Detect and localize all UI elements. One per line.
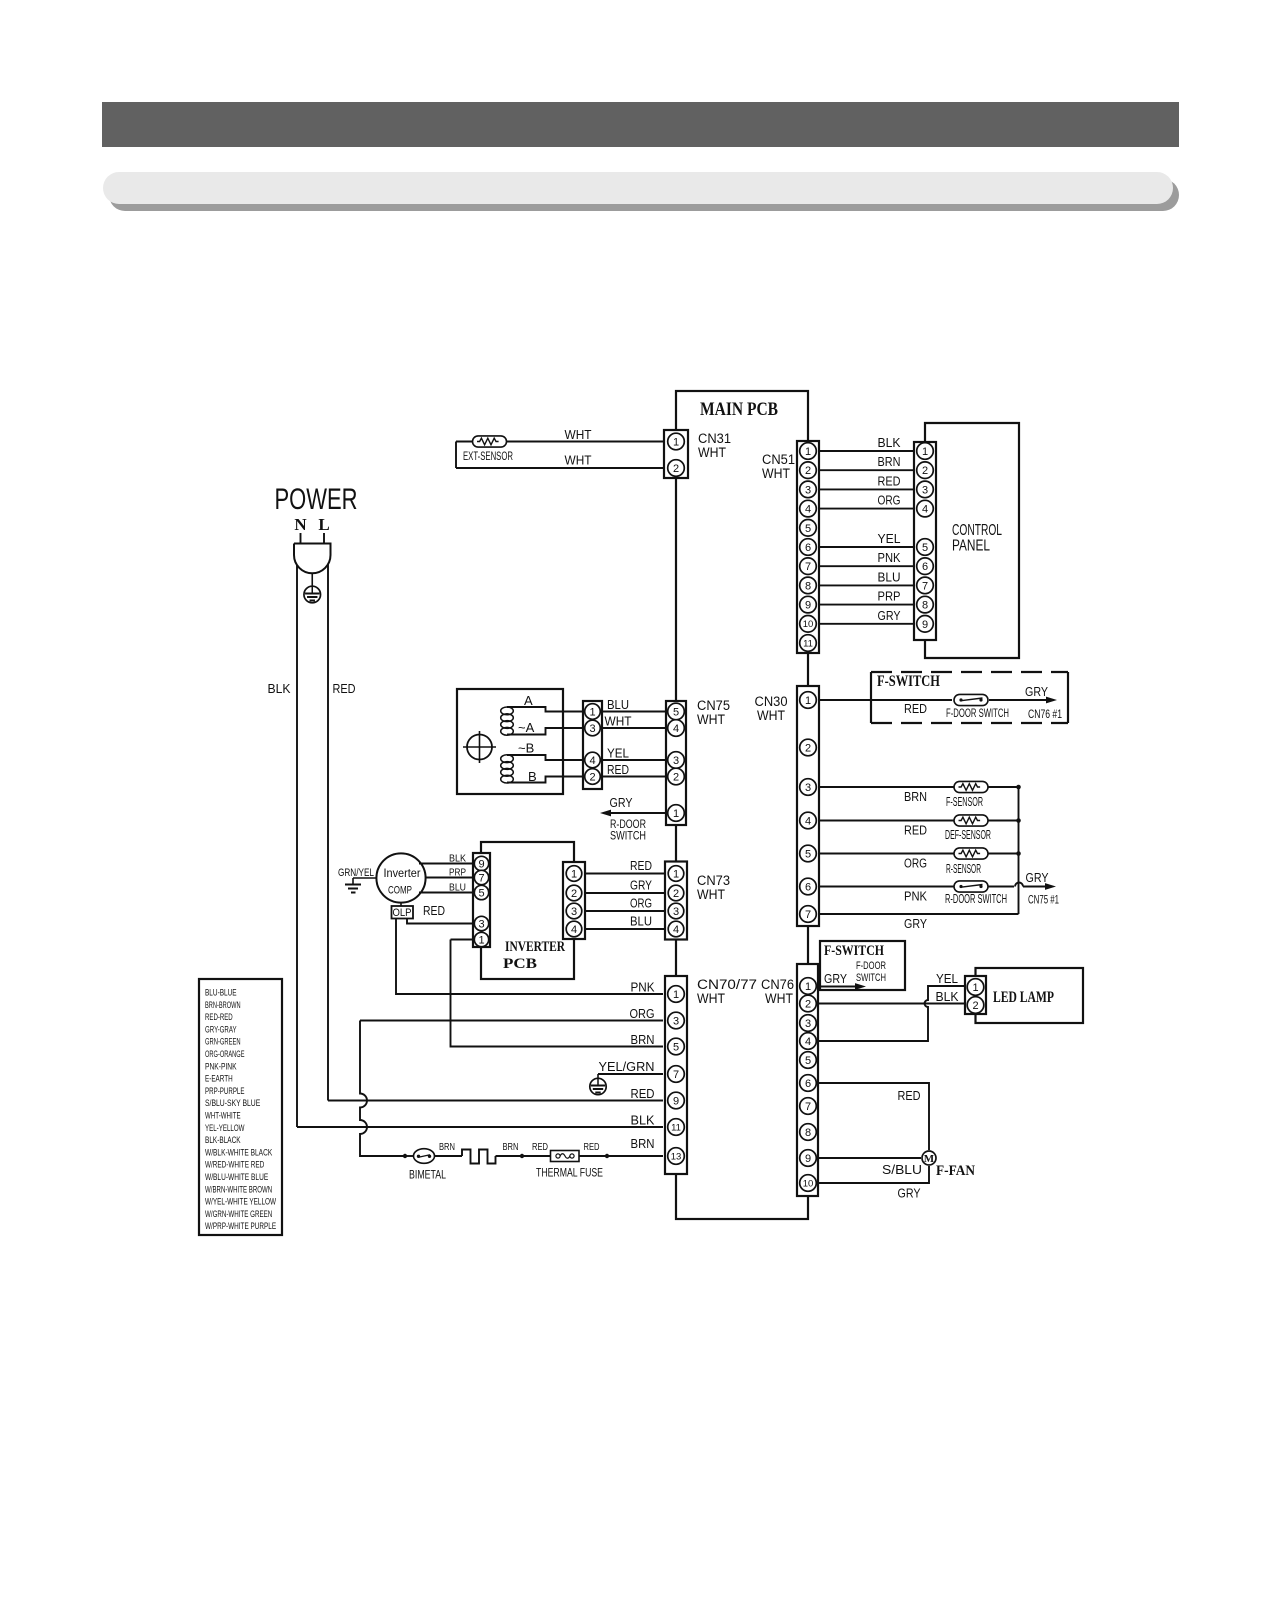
svg-text:GRY: GRY (1025, 684, 1048, 699)
svg-text:BLU: BLU (607, 697, 629, 712)
svg-text:POWER: POWER (275, 483, 358, 516)
svg-text:ORG-ORANGE: ORG-ORANGE (205, 1049, 245, 1060)
wire BRN inverter pin1 to CN70/77 pin5 (451, 940, 664, 1048)
svg-text:RED: RED (904, 823, 927, 838)
wire RED CN76 pin6 to F-FAN motor (818, 1083, 929, 1150)
svg-text:L: L (318, 515, 329, 534)
svg-text:~A: ~A (518, 720, 535, 735)
sensor common bus wire (1016, 785, 1021, 914)
svg-text:1: 1 (673, 989, 679, 1001)
switch box F-SWITCH with F-DOOR SWITCH (820, 941, 905, 990)
svg-text:RED: RED (423, 903, 445, 918)
svg-text:9: 9 (805, 600, 811, 612)
svg-text:8: 8 (922, 600, 928, 612)
svg-text:5: 5 (922, 542, 928, 554)
svg-text:4: 4 (673, 723, 679, 735)
svg-text:R-SENSOR: R-SENSOR (946, 862, 981, 876)
svg-text:CN76: CN76 (761, 977, 794, 992)
overload protector OLP (392, 903, 414, 919)
svg-text:W/YEL-WHITE YELLOW: W/YEL-WHITE YELLOW (205, 1197, 276, 1208)
svg-text:PANEL: PANEL (952, 538, 990, 555)
svg-text:5: 5 (805, 523, 811, 535)
fuse THERMAL FUSE (536, 1151, 603, 1180)
connector CN31 (664, 430, 688, 478)
svg-text:4: 4 (589, 755, 595, 767)
svg-text:1: 1 (673, 868, 679, 880)
wire WHT to CN31 pin2 (456, 442, 663, 469)
svg-text:~B: ~B (518, 741, 534, 756)
svg-text:9: 9 (922, 619, 928, 631)
coil B winding (501, 755, 584, 783)
wire CN51 to CN30 (807, 653, 809, 686)
svg-text:5: 5 (805, 848, 811, 860)
svg-text:SWITCH: SWITCH (856, 972, 886, 984)
wire BLU to CN75 pin5 (602, 697, 667, 712)
svg-text:BRN: BRN (439, 1142, 455, 1153)
svg-text:GRY: GRY (824, 972, 848, 986)
label CN70/77 WHT (697, 977, 757, 1006)
svg-text:7: 7 (805, 561, 811, 573)
wire RED power to CN70/77 pin9 (328, 1086, 663, 1101)
svg-text:BLU: BLU (630, 914, 652, 929)
svg-text:RED: RED (878, 473, 901, 488)
svg-text:BLK: BLK (268, 681, 291, 696)
svg-text:RED: RED (904, 701, 927, 716)
svg-text:BRN: BRN (503, 1142, 519, 1153)
svg-text:RED: RED (631, 1086, 655, 1101)
svg-text:CN73: CN73 (697, 873, 730, 888)
connector LED lamp connector (965, 976, 986, 1014)
svg-text:2: 2 (571, 888, 577, 900)
svg-text:ORG: ORG (630, 1006, 655, 1021)
earth symbol under power plug (304, 573, 321, 603)
svg-text:S/BLU: S/BLU (882, 1162, 922, 1177)
wire WHT to CN31 pin1 (456, 427, 663, 442)
wire PNK CN51 pin7 to control panel (819, 550, 914, 566)
svg-text:WHT: WHT (762, 466, 790, 481)
svg-text:YEL: YEL (936, 971, 958, 986)
svg-text:ORG: ORG (904, 856, 927, 871)
wire GRY CN30 pin7 (819, 914, 1019, 931)
motor F-FAN (922, 1151, 975, 1179)
wire GRY CN51 pin10 to control panel (819, 608, 914, 624)
svg-text:10: 10 (803, 1178, 814, 1189)
svg-text:W/BRN-WHITE BROWN: W/BRN-WHITE BROWN (205, 1184, 272, 1195)
svg-text:COMP: COMP (388, 885, 412, 897)
svg-text:F-DOOR: F-DOOR (856, 960, 886, 972)
sensor F-SENSOR (946, 781, 988, 809)
thermostat BIMETAL (403, 1149, 446, 1182)
svg-text:WHT-WHITE: WHT-WHITE (205, 1111, 241, 1122)
svg-text:GRN-GREEN: GRN-GREEN (205, 1037, 241, 1048)
svg-text:2: 2 (673, 888, 679, 900)
svg-text:GRY: GRY (904, 916, 927, 931)
svg-text:CN70/77: CN70/77 (697, 977, 757, 992)
svg-text:6: 6 (805, 881, 811, 893)
wire S/BLU CN76 pin9 to F-FAN motor (818, 1158, 922, 1177)
svg-text:9: 9 (805, 1153, 811, 1165)
svg-text:BRN: BRN (878, 454, 901, 469)
svg-text:6: 6 (805, 542, 811, 554)
svg-text:2: 2 (922, 465, 928, 477)
svg-text:WHT: WHT (697, 991, 725, 1006)
svg-text:F-FAN: F-FAN (936, 1163, 975, 1179)
svg-text:BLK-BLACK: BLK-BLACK (205, 1135, 241, 1146)
connector CN75 (666, 701, 686, 825)
wire GRY CN76 pin10 to F-FAN motor (818, 1166, 929, 1201)
svg-text:PNK: PNK (904, 889, 927, 904)
svg-text:WHT: WHT (565, 453, 592, 468)
earth symbol YEL/GRN (590, 1078, 606, 1094)
coil A winding (501, 707, 584, 735)
svg-text:WHT: WHT (565, 427, 592, 442)
wire PRP CN51 pin9 to control panel (819, 589, 914, 605)
svg-text:3: 3 (922, 484, 928, 496)
connector CN73 (665, 862, 687, 940)
wire YEL CN76 pin4 to LED pin1 (riser with hop) (818, 971, 964, 1041)
header dark grey bar (102, 102, 1179, 147)
wire BLK from power plug (268, 565, 298, 1127)
svg-text:4: 4 (673, 924, 679, 936)
wire BRN meander to thermal fuse (496, 1142, 551, 1158)
svg-text:2: 2 (805, 998, 811, 1010)
svg-text:4: 4 (571, 924, 577, 936)
wire BRN CN30 pin3 to F-SENSOR (819, 787, 1017, 804)
svg-text:5: 5 (673, 706, 679, 718)
svg-text:7: 7 (922, 580, 928, 592)
svg-text:PNK: PNK (878, 550, 901, 565)
wire RED CN30 pin1 to F-DOOR SWITCH (819, 700, 952, 716)
svg-text:YEL-YELLOW: YEL-YELLOW (205, 1123, 245, 1134)
svg-text:6: 6 (805, 1078, 811, 1090)
svg-text:YEL: YEL (607, 746, 629, 761)
svg-text:BRN: BRN (904, 789, 927, 804)
wire BRN thermal fuse to CN70/77 pin13 (579, 1136, 663, 1158)
svg-text:PRP-PURPLE: PRP-PURPLE (205, 1086, 245, 1097)
label CN31 WHT (698, 431, 731, 460)
connector damper connector (583, 701, 602, 789)
svg-text:PNK: PNK (631, 980, 655, 995)
damper motor box (457, 689, 563, 794)
label CONTROL PANEL (952, 522, 1002, 555)
svg-text:GRY: GRY (1026, 870, 1049, 885)
svg-text:BIMETAL: BIMETAL (409, 1170, 446, 1182)
svg-text:INVERTER: INVERTER (505, 939, 565, 955)
defrost heater meander (462, 1150, 496, 1164)
wire WHT to CN75 pin4 (602, 714, 667, 729)
wire BLK CN51 pin1 to control panel (819, 435, 914, 451)
wire GRY to CN76 pin1 (arrow) (989, 684, 1062, 721)
svg-text:GRY: GRY (878, 608, 901, 623)
svg-text:CN30: CN30 (755, 694, 788, 709)
header light rounded bar with shadow (103, 172, 1179, 211)
svg-text:2: 2 (673, 771, 679, 783)
svg-text:YEL/GRN: YEL/GRN (599, 1059, 655, 1074)
wire RED CN51 pin3 to control panel (819, 473, 914, 489)
svg-text:3: 3 (805, 782, 811, 794)
control panel box (925, 423, 1019, 658)
svg-text:7: 7 (805, 1101, 811, 1113)
svg-text:RED: RED (898, 1088, 921, 1103)
svg-text:1: 1 (805, 446, 811, 458)
svg-text:Inverter: Inverter (384, 868, 421, 880)
svg-text:W/BLK-WHITE BLACK: W/BLK-WHITE BLACK (205, 1147, 273, 1158)
connector CN76 (797, 964, 818, 1196)
svg-text:E-EARTH: E-EARTH (205, 1074, 233, 1085)
svg-text:10: 10 (803, 619, 814, 630)
svg-text:PRP: PRP (449, 867, 466, 879)
svg-text:2: 2 (673, 463, 679, 475)
svg-text:1: 1 (922, 446, 928, 458)
svg-text:BLK: BLK (878, 435, 901, 450)
wire RED CN30 pin4 to DEF-SENSOR (819, 821, 1017, 838)
svg-text:RED: RED (607, 762, 629, 777)
svg-text:1: 1 (805, 695, 811, 707)
svg-text:1: 1 (972, 982, 978, 994)
svg-text:WHT: WHT (697, 887, 725, 902)
connector inverter PCB right connector (563, 862, 585, 939)
lamp LED LAMP box (976, 968, 1084, 1023)
svg-text:2: 2 (805, 742, 811, 754)
svg-text:1: 1 (478, 934, 484, 946)
label CN51 WHT (762, 452, 795, 481)
svg-text:M: M (924, 1153, 935, 1165)
label INVERTER PCB (503, 939, 565, 972)
connector CN30 (797, 686, 819, 926)
svg-text:N: N (294, 515, 307, 534)
svg-text:CONTROL: CONTROL (952, 522, 1002, 539)
svg-text:BRN: BRN (631, 1136, 655, 1151)
svg-text:RED: RED (532, 1142, 548, 1153)
label CN30 WHT (755, 694, 788, 723)
svg-text:W/RED-WHITE RED: W/RED-WHITE RED (205, 1160, 264, 1171)
svg-text:5: 5 (805, 1055, 811, 1067)
svg-text:1: 1 (673, 436, 679, 448)
svg-text:2: 2 (972, 1000, 978, 1012)
svg-text:BRN-BROWN: BRN-BROWN (205, 1000, 241, 1011)
wire ORG inverter to CN73 pin3 (585, 896, 667, 912)
svg-text:LED LAMP: LED LAMP (993, 989, 1054, 1006)
earth symbol at compressor (345, 878, 377, 893)
compressor Inverter COMP (376, 853, 425, 902)
svg-text:GRY: GRY (610, 795, 633, 810)
switch box F-SWITCH (dashed) (871, 672, 1068, 723)
switch R-DOOR SWITCH (945, 881, 1007, 906)
svg-text:GRY: GRY (630, 878, 652, 893)
svg-text:3: 3 (589, 723, 595, 735)
svg-text:B: B (528, 769, 537, 784)
wire BRN bimetal to heater meander (435, 1142, 463, 1156)
wire GRY inverter to CN73 pin2 (585, 878, 667, 894)
wire BRN CN51 pin2 to control panel (819, 454, 914, 470)
wire PNK CN30 pin6 to R-DOOR SWITCH (819, 887, 954, 904)
wire ORG CN51 pin4 to control panel (819, 493, 914, 509)
svg-text:YEL: YEL (878, 531, 901, 546)
wire BLU comp to inverter pin5 (419, 882, 474, 894)
svg-text:ORG: ORG (878, 493, 901, 508)
inverter PCB box (481, 842, 574, 979)
connector control panel connector (914, 442, 936, 640)
svg-text:RED: RED (333, 681, 356, 696)
wire RED inverter to CN73 pin1 (585, 858, 667, 874)
connector CN70/77 (665, 976, 687, 1174)
svg-text:3: 3 (673, 1015, 679, 1027)
wire RED to CN75 pin2 (602, 762, 667, 777)
svg-text:W/BLU-WHITE BLUE: W/BLU-WHITE BLUE (205, 1172, 268, 1183)
wire YEL CN51 pin6 to control panel (819, 531, 914, 547)
svg-text:5: 5 (478, 887, 484, 899)
svg-text:11: 11 (803, 638, 813, 649)
connector inverter PCB left connector (473, 853, 490, 947)
main PCB box (676, 391, 808, 1219)
svg-text:RED: RED (584, 1142, 600, 1153)
svg-text:2: 2 (805, 465, 811, 477)
svg-text:MAIN PCB: MAIN PCB (700, 399, 778, 420)
wire BLK CN76 pin2 to LED pin2 (818, 989, 964, 1004)
svg-text:4: 4 (805, 504, 811, 516)
svg-text:WHT: WHT (698, 445, 726, 460)
svg-text:3: 3 (478, 918, 484, 930)
svg-text:F-DOOR SWITCH: F-DOOR SWITCH (946, 706, 1009, 720)
switch F-DOOR SWITCH (946, 694, 1009, 720)
svg-text:WHT: WHT (605, 714, 632, 729)
svg-text:A: A (524, 693, 533, 708)
svg-text:GRY: GRY (898, 1186, 921, 1201)
svg-text:1: 1 (571, 868, 577, 880)
svg-text:R-DOOR SWITCH: R-DOOR SWITCH (945, 892, 1007, 906)
connector CN51 (797, 441, 819, 653)
svg-text:ORG: ORG (630, 896, 652, 911)
label CN73 WHT (697, 873, 730, 902)
svg-text:2: 2 (589, 771, 595, 783)
svg-text:S/BLU-SKY BLUE: S/BLU-SKY BLUE (205, 1098, 260, 1109)
junction dot before bimetal (403, 1154, 407, 1158)
wire GRY CN76 pin1 (arrow) (818, 983, 866, 990)
motor symbol circle with cross (463, 731, 496, 763)
svg-text:W/GRN-WHITE GREEN: W/GRN-WHITE GREEN (205, 1209, 272, 1220)
svg-text:3: 3 (673, 755, 679, 767)
wire ORG CN30 pin5 to R-SENSOR (819, 854, 1017, 871)
svg-text:GRY-GRAY: GRY-GRAY (205, 1024, 237, 1035)
wire colour legend box (199, 979, 282, 1235)
svg-text:7: 7 (673, 1069, 679, 1081)
sensor R-SENSOR (946, 848, 988, 876)
svg-text:8: 8 (805, 580, 811, 592)
svg-text:F-SWITCH: F-SWITCH (824, 943, 884, 959)
svg-text:BLU: BLU (878, 569, 901, 584)
wire YEL to CN75 pin3 (602, 746, 667, 761)
svg-text:BLU-BLUE: BLU-BLUE (205, 988, 237, 999)
svg-text:1: 1 (805, 981, 811, 993)
svg-text:RED-RED: RED-RED (205, 1012, 233, 1023)
wire PRP comp to inverter pin7 (426, 867, 475, 879)
wire BLU CN51 pin8 to control panel (819, 569, 914, 585)
wire PNK OLP to CN70/77 pin1 (396, 919, 663, 995)
svg-text:CN31: CN31 (698, 431, 731, 446)
svg-text:3: 3 (673, 906, 679, 918)
svg-text:F-SENSOR: F-SENSOR (946, 795, 983, 809)
svg-text:3: 3 (805, 1018, 811, 1030)
svg-text:1: 1 (673, 808, 679, 820)
svg-text:9: 9 (673, 1095, 679, 1107)
svg-text:WHT: WHT (765, 991, 793, 1006)
wire BLK comp to inverter pin9 (419, 853, 474, 865)
svg-text:4: 4 (805, 1036, 811, 1048)
svg-text:11: 11 (671, 1122, 681, 1133)
svg-text:BRN: BRN (631, 1032, 655, 1047)
svg-text:W/PRP-WHITE PURPLE: W/PRP-WHITE PURPLE (205, 1221, 276, 1232)
svg-text:BLU: BLU (449, 882, 466, 894)
wire ORG CN70/77 pin3 to bimetal chain (with hops) (360, 1006, 663, 1156)
svg-text:PNK-PINK: PNK-PINK (205, 1061, 237, 1072)
svg-text:BLK: BLK (631, 1113, 655, 1128)
svg-text:BLK: BLK (449, 853, 466, 865)
svg-text:7: 7 (478, 872, 484, 884)
svg-text:7: 7 (805, 909, 811, 921)
svg-text:8: 8 (805, 1127, 811, 1139)
svg-text:BLK: BLK (936, 989, 959, 1004)
svg-text:EXT-SENSOR: EXT-SENSOR (463, 451, 513, 463)
svg-text:R-DOOR: R-DOOR (610, 819, 646, 831)
svg-text:3: 3 (805, 484, 811, 496)
svg-text:WHT: WHT (757, 708, 785, 723)
wire RED OLP to inverter pin3 (407, 903, 474, 924)
svg-text:6: 6 (922, 561, 928, 573)
svg-text:CN51: CN51 (762, 452, 795, 467)
svg-text:CN75 #1: CN75 #1 (1028, 895, 1059, 907)
svg-text:4: 4 (805, 815, 811, 827)
svg-text:DEF-SENSOR: DEF-SENSOR (945, 828, 991, 842)
sensor EXT-SENSOR (463, 436, 513, 463)
power plug with prongs N and L (294, 515, 331, 573)
svg-text:F-SWITCH: F-SWITCH (877, 673, 940, 690)
svg-text:PCB: PCB (503, 956, 537, 972)
svg-text:CN75: CN75 (697, 698, 730, 713)
wire GRY to CN75 pin1 (arrow with hop) (988, 870, 1059, 907)
wire BLU inverter to CN73 pin4 (585, 914, 667, 930)
svg-text:CN76 #1: CN76 #1 (1028, 709, 1062, 721)
wire GRY CN75 pin1 to R-DOOR SWITCH (arrow) (600, 795, 668, 843)
wire RED from power plug (328, 564, 356, 1101)
svg-text:RED: RED (630, 858, 652, 873)
svg-text:9: 9 (478, 858, 484, 870)
wire BLK power to CN70/77 pin11 (297, 1113, 663, 1128)
wire YEL/GRN CN70/77 pin7 to earth (598, 1059, 663, 1079)
svg-text:OLP: OLP (393, 907, 412, 919)
label CN75 WHT (697, 698, 730, 727)
sensor DEF-SENSOR (945, 815, 991, 842)
svg-text:13: 13 (671, 1151, 682, 1162)
svg-text:4: 4 (922, 504, 928, 516)
svg-text:1: 1 (589, 706, 595, 718)
svg-text:WHT: WHT (697, 712, 725, 727)
svg-text:3: 3 (571, 906, 577, 918)
svg-text:PRP: PRP (878, 589, 901, 604)
svg-text:THERMAL FUSE: THERMAL FUSE (536, 1166, 603, 1180)
label CN76 WHT (761, 977, 794, 1006)
svg-text:SWITCH: SWITCH (610, 831, 646, 843)
svg-text:5: 5 (673, 1041, 679, 1053)
